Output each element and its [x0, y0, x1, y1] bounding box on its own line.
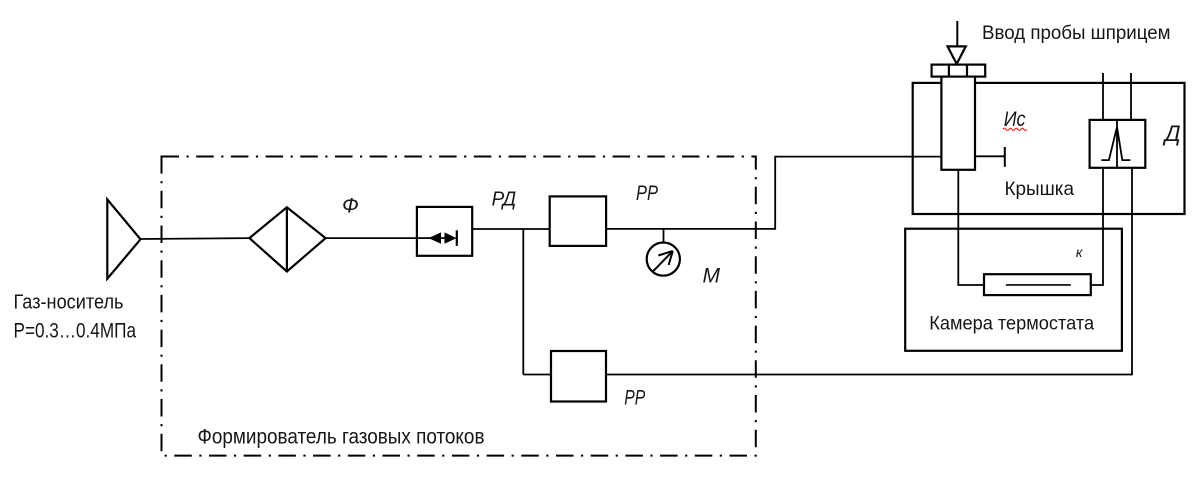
wire РР1 to injector (right, up, right) — [606, 157, 941, 229]
wire branch vertical — [522, 229, 524, 375]
svg-text:РР: РР — [624, 387, 645, 410]
red spellcheck squiggle under Ис — [1003, 128, 1027, 130]
gas source triangle — [107, 199, 140, 278]
svg-text:Газ-носитель: Газ-носитель — [14, 291, 124, 313]
svg-text:РР: РР — [636, 182, 658, 205]
lid box Крышка — [913, 83, 1185, 214]
detector top leg right — [1130, 73, 1132, 120]
svg-text:Камера термостата: Камера термостата — [929, 312, 1094, 334]
pressure regulator РД box — [417, 207, 472, 256]
wire source to filter — [141, 237, 250, 240]
rotameter РР2 box — [551, 351, 606, 402]
svg-text:РД: РД — [492, 189, 516, 211]
injector body Ис — [941, 77, 975, 170]
rotameter РР1 box — [550, 196, 606, 246]
wire РД to РР1 — [472, 228, 550, 230]
svg-text:Д: Д — [1162, 121, 1181, 146]
wire column to detector — [1091, 168, 1103, 285]
wire branch to РР2 — [523, 374, 551, 376]
manometer stub wire — [663, 229, 665, 243]
thermostat chamber box — [905, 229, 1122, 351]
svg-text:Формирователь газовых потоков: Формирователь газовых потоков — [198, 425, 485, 448]
wire injector to column — [958, 170, 984, 285]
wire РР2 to detector (long right then up) — [606, 168, 1132, 375]
column к rectangle — [984, 274, 1091, 295]
svg-text:М: М — [703, 264, 721, 287]
svg-text:Ф: Ф — [342, 195, 359, 218]
detector Д box with peak — [1090, 120, 1146, 168]
syringe funnel triangle — [948, 46, 966, 64]
manometer М circle with arrow — [647, 243, 680, 276]
РД internal symbol: line, two arrowheads, bar — [417, 230, 457, 246]
dash-dot enclosure Формирователь газовых потоков — [162, 157, 756, 456]
injector right stub with end bar — [975, 147, 1005, 167]
syringe feed wire — [956, 21, 958, 47]
injector flange (three cells) — [932, 65, 986, 77]
filter Ф diamond — [249, 207, 325, 271]
svg-text:P=0.3…0.4МПа: P=0.3…0.4МПа — [14, 319, 137, 343]
svg-text:Крышка: Крышка — [1005, 178, 1075, 200]
column inner line — [1006, 284, 1071, 286]
detector top leg left — [1102, 73, 1104, 120]
svg-text:Ввод пробы шприцем: Ввод пробы шприцем — [982, 22, 1171, 44]
wire filter to РД — [326, 237, 417, 239]
